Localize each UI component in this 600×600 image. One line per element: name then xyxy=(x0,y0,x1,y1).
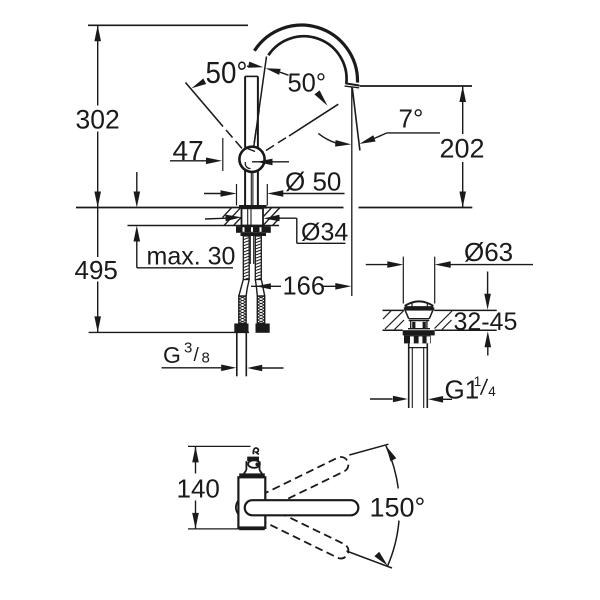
drain tailpipe xyxy=(409,343,428,408)
arrow down at deck (302) xyxy=(94,192,101,208)
svg-text:max. 30: max. 30 xyxy=(147,243,236,271)
plan extension line top xyxy=(188,445,251,447)
202 dim line upper xyxy=(462,86,464,134)
label 150deg xyxy=(370,493,426,523)
left 50 leader arrow to swing line xyxy=(192,79,207,89)
drain flange xyxy=(404,307,435,310)
plan knob ring xyxy=(248,460,260,468)
body extension line right (O50) xyxy=(266,184,268,206)
spout inner arc xyxy=(268,36,346,84)
hose connector left xyxy=(234,324,248,333)
arrow down (202) xyxy=(459,192,466,208)
sink deck top line xyxy=(383,309,497,311)
166 dim line left+arrow xyxy=(251,283,281,289)
flex hose right xyxy=(257,296,264,324)
label 140 xyxy=(177,474,220,504)
O34 right arrow + stepped leader xyxy=(264,215,346,244)
arrow up (140) xyxy=(192,446,199,462)
47 dimension line+arrow xyxy=(170,158,222,165)
hose connector right xyxy=(256,324,270,333)
arrow up at top reference xyxy=(94,25,101,41)
plan left bump xyxy=(236,500,239,514)
svg-text:7°: 7° xyxy=(399,104,424,134)
plan spout swivel position lower (dashed) xyxy=(259,507,349,558)
150 arc upper xyxy=(386,446,398,489)
O50 dimension left arrow xyxy=(204,190,237,197)
G38 dim line right xyxy=(247,365,283,372)
G38 dim line left xyxy=(162,365,237,372)
label max. 30 xyxy=(147,243,236,271)
svg-text:302: 302 xyxy=(76,105,120,135)
202 dim line lower xyxy=(462,162,464,208)
32-45 top arrow xyxy=(484,272,491,310)
left swing line dashes xyxy=(226,130,242,149)
drain dome cap xyxy=(405,301,434,306)
svg-text:495: 495 xyxy=(75,255,118,285)
label G114 xyxy=(445,374,497,405)
svg-text:1: 1 xyxy=(474,374,482,389)
label 50deg left xyxy=(206,55,248,90)
140 dim line upper xyxy=(195,446,197,473)
drain body through deck xyxy=(405,311,432,329)
svg-text:4: 4 xyxy=(488,384,496,399)
svg-text:150°: 150° xyxy=(370,493,426,523)
plan body bottom band xyxy=(239,526,265,530)
plan knob sides xyxy=(244,461,263,474)
lever stick right edge xyxy=(257,76,259,147)
svg-text:166: 166 xyxy=(283,273,326,301)
max30 lower leader xyxy=(137,242,233,268)
stud-to-hose transition left xyxy=(239,280,249,297)
deck surface line right segment xyxy=(359,207,473,209)
arrow down (140) xyxy=(192,513,199,529)
svg-text:3: 3 xyxy=(184,340,192,357)
spout tip face xyxy=(345,83,360,87)
arrow down at supply line (495) xyxy=(94,316,101,332)
202 reference line xyxy=(360,85,473,87)
arrow up at deck bottom (max30) xyxy=(134,226,141,242)
right swing line dashes xyxy=(266,138,286,151)
inner tube lines below deck xyxy=(250,236,253,264)
plan extension line bottom xyxy=(188,528,243,530)
label G38 xyxy=(163,340,210,368)
svg-text:8: 8 xyxy=(202,350,210,367)
7deg right arrow+leader xyxy=(359,133,440,144)
spout 7deg tilted line xyxy=(352,88,360,151)
label 50deg right xyxy=(288,70,327,98)
swivel limit ray lower xyxy=(347,551,393,568)
lever centerline dashed edge xyxy=(254,110,259,143)
140 dim line lower xyxy=(195,501,197,529)
150 arc lower xyxy=(388,521,399,566)
label 202 xyxy=(440,134,485,164)
lever stick left edge xyxy=(244,76,246,147)
arrow at 150 arc upper end xyxy=(386,446,396,462)
label O63 xyxy=(464,237,513,267)
ball joint xyxy=(239,147,264,172)
threaded mounting studs xyxy=(243,236,261,280)
body inner tube lines xyxy=(251,172,253,206)
arrow up (202) xyxy=(459,86,466,102)
left swing line solid xyxy=(186,83,224,127)
mounting nut xyxy=(236,226,271,236)
dimension line 495 lower segment xyxy=(97,282,99,333)
svg-text:140: 140 xyxy=(177,474,220,504)
G114 dim right xyxy=(428,396,452,403)
deck bottom line xyxy=(128,225,280,227)
swivel limit ray upper xyxy=(349,444,388,455)
body column right edge xyxy=(257,171,259,206)
svg-text:202: 202 xyxy=(440,134,485,164)
deck hatch right xyxy=(263,208,280,226)
ball inner detail xyxy=(245,148,263,169)
svg-text:32-45: 32-45 xyxy=(454,308,518,336)
svg-text:Ø63: Ø63 xyxy=(464,237,513,267)
O50 dimension right arrow+tail xyxy=(267,190,344,197)
max30 upper arrow line xyxy=(136,172,138,192)
label O34 xyxy=(301,219,348,247)
O63 extension lines xyxy=(403,257,434,304)
sink deck hatch right xyxy=(435,311,453,330)
label 32-45 xyxy=(454,308,518,336)
left 50 leader arrow to centerline xyxy=(247,62,263,68)
47 right arrow at body center xyxy=(252,159,289,166)
svg-text:G: G xyxy=(163,342,181,368)
drain locknut xyxy=(403,330,435,343)
right swing line solid xyxy=(289,104,338,136)
lever centerline (tilted) xyxy=(251,57,267,171)
G114 dim left xyxy=(370,396,408,403)
lever stick top cap xyxy=(245,75,258,77)
166 dim line right+arrow xyxy=(323,283,352,290)
dimension line 302 lower segment xyxy=(97,132,99,208)
deck surface line left segment xyxy=(76,207,344,209)
dimension line 302/495 upper segment xyxy=(97,25,99,105)
right 50 leader arrow to centerline xyxy=(265,68,288,75)
svg-text:50°: 50° xyxy=(206,55,248,90)
dimension line 495 segment below deck xyxy=(97,208,99,258)
base flange xyxy=(239,205,267,209)
vertical reference from spout xyxy=(351,88,353,297)
svg-text:Ø34: Ø34 xyxy=(301,219,348,247)
47 extension line xyxy=(222,138,224,171)
label O50 xyxy=(285,167,341,197)
label 7deg xyxy=(399,104,424,134)
label 302 xyxy=(76,105,120,135)
shank through deck xyxy=(242,208,264,225)
plan body xyxy=(238,477,265,528)
spout outer arc xyxy=(254,25,357,83)
svg-text:Ø 50: Ø 50 xyxy=(285,167,341,197)
sink deck bottom line xyxy=(383,329,497,331)
O63 dim left xyxy=(366,261,404,268)
stud-to-hose transition right xyxy=(255,280,264,297)
right 50 leader arrow to swing line xyxy=(314,90,327,105)
plan spout (capsule) xyxy=(245,500,359,515)
32-45 bottom arrow xyxy=(485,331,492,355)
plan lever tip mark xyxy=(253,448,259,454)
top reference line (spout height) xyxy=(88,24,248,26)
svg-text:/: / xyxy=(194,345,200,366)
O63 dim right+tail xyxy=(435,261,533,268)
label 166 xyxy=(283,273,326,301)
sink deck hatch left xyxy=(383,311,404,330)
body extension line left (O50) xyxy=(236,184,238,206)
arrow at 150 arc lower end xyxy=(374,552,387,566)
O34 left arrow xyxy=(205,215,242,222)
label 495 xyxy=(75,255,118,285)
plan knob top band xyxy=(247,457,259,462)
plan spout swivel position upper (dashed) xyxy=(261,457,348,510)
7deg arc with arrow xyxy=(318,133,351,146)
label 47 xyxy=(173,135,204,166)
flex hose left xyxy=(239,296,246,324)
body column left edge xyxy=(244,171,246,206)
arrow down at deck (max30) xyxy=(134,192,141,208)
G38 pipe xyxy=(237,333,247,377)
deck hatch left xyxy=(223,208,242,226)
plan body top band xyxy=(239,473,265,477)
supply reference line xyxy=(89,331,249,333)
